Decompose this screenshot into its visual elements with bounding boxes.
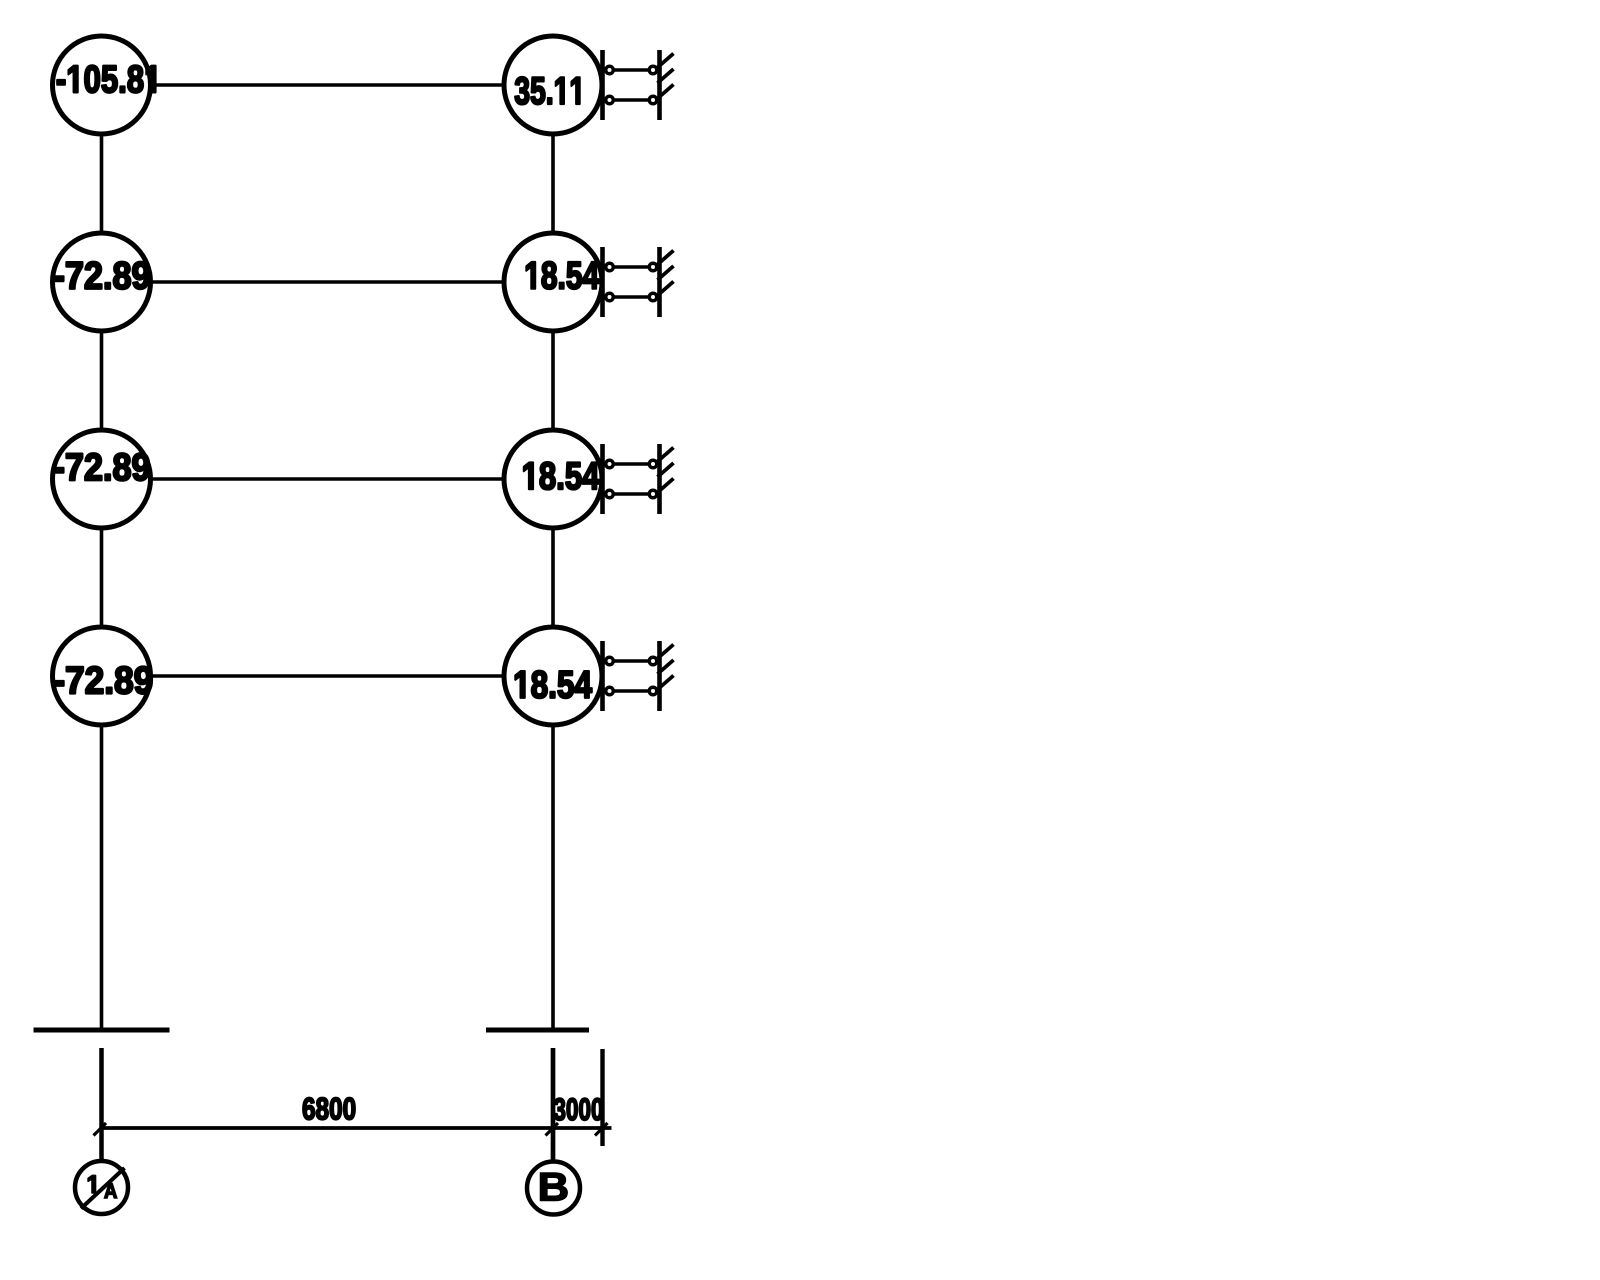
support row1 pin lower-left: [606, 96, 614, 104]
node circle row4 right: [504, 627, 602, 725]
beam row3: [149, 477, 505, 481]
support row3 pin upper-right: [649, 460, 657, 468]
node value -72.89 row3 left: [55, 453, 149, 480]
support row4 upper link bar: [604, 659, 658, 662]
support row1 lower link bar: [604, 98, 658, 101]
node value -72.89 row2 left: [55, 262, 149, 289]
dimension extension line: [600, 1049, 604, 1146]
support row4 (horizontal link support): [603, 641, 674, 711]
support row2 (horizontal link support): [603, 247, 674, 317]
grid label 1: [88, 1176, 95, 1193]
support row3 wall hatch 1: [658, 448, 674, 462]
support row3 wall hatch 3: [658, 479, 674, 493]
right column segment 2: [551, 331, 555, 431]
svg-text:B: B: [538, 1164, 569, 1209]
support row4 lower link bar: [604, 689, 658, 692]
support row3 pin upper-left: [606, 460, 614, 468]
support row4 pin upper-right: [649, 657, 657, 665]
grid bubble right: [527, 1162, 580, 1215]
support row2 wall post: [657, 247, 662, 317]
support row1 inner post: [600, 50, 605, 120]
support row3 lower link bar: [604, 492, 658, 495]
beam row2: [149, 280, 505, 284]
grid bubble left: [75, 1161, 128, 1214]
right column segment 4: [551, 725, 555, 1030]
support row4 pin upper-left: [606, 657, 614, 665]
support row2 wall hatch 3: [658, 282, 674, 296]
support row2 pin upper-right: [649, 263, 657, 271]
support row4 wall hatch 2: [658, 660, 674, 674]
foundation tick right: [486, 1028, 589, 1033]
left column segment 4: [100, 725, 104, 1030]
foundation tick left: [34, 1028, 170, 1033]
support row2 pin upper-left: [606, 263, 614, 271]
support row3 pin lower-left: [606, 490, 614, 498]
dim tick left: [94, 1123, 107, 1136]
support row4 inner post: [600, 641, 605, 711]
support row1 wall hatch 2: [658, 69, 674, 83]
support row4 wall hatch 1: [658, 645, 674, 659]
left column segment 1: [100, 134, 104, 234]
beam row4: [149, 674, 505, 678]
node value 18.54 row4 right: [515, 671, 592, 698]
node circle row2 right: [504, 233, 602, 331]
left column segment 2: [100, 331, 104, 431]
support row2 wall hatch 2: [658, 266, 674, 280]
node circle row3 left: [53, 430, 151, 528]
node circle row3 right: [504, 430, 602, 528]
node value 18.54 row3 right: [524, 462, 600, 489]
right column segment 1: [551, 134, 555, 234]
support row4 pin lower-left: [606, 687, 614, 695]
support row1 upper link bar: [604, 68, 658, 71]
support row1 wall post: [657, 50, 662, 120]
node circle row1 right: [504, 36, 602, 134]
dim text 3000: [554, 1098, 603, 1120]
node value 35.11 row1 right: [515, 77, 580, 104]
support row3 pin lower-right: [649, 490, 657, 498]
support row3 inner post: [600, 444, 605, 514]
support row3 wall post: [657, 444, 662, 514]
dim tick middle: [546, 1123, 559, 1136]
support row2 pin lower-left: [606, 293, 614, 301]
grid line left lower: [99, 1048, 104, 1160]
node value -105.81 row1 left: [57, 65, 156, 92]
support row2 wall hatch 1: [658, 251, 674, 265]
beam row1: [149, 83, 505, 87]
support row1 wall hatch 1: [658, 54, 674, 68]
support row2 pin lower-right: [649, 293, 657, 301]
node circle row4 left: [53, 627, 151, 725]
grid bubble left slash: [81, 1168, 125, 1209]
dim text 6800: [303, 1098, 355, 1120]
support row2 upper link bar: [604, 265, 658, 268]
support row1 pin upper-left: [606, 66, 614, 74]
dim tick right: [595, 1123, 608, 1136]
support row1 pin lower-right: [649, 96, 657, 104]
support row4 pin lower-right: [649, 687, 657, 695]
support row2 lower link bar: [604, 295, 658, 298]
support row3 upper link bar: [604, 462, 658, 465]
left column segment 3: [100, 528, 104, 628]
support row1 pin upper-right: [649, 66, 657, 74]
support row3 (horizontal link support): [603, 444, 674, 514]
svg-text:A: A: [104, 1180, 117, 1203]
dimension line: [101, 1126, 612, 1130]
support row4 wall post: [657, 641, 662, 711]
support row1 (horizontal link support): [603, 50, 674, 120]
node value -72.89 row4 left: [55, 667, 152, 694]
grid line right lower: [551, 1048, 556, 1160]
node circle row1 left: [53, 36, 151, 134]
node circle row2 left: [53, 233, 151, 331]
node value 18.54 row2 right: [526, 262, 599, 289]
support row1 wall hatch 3: [658, 85, 674, 99]
support row3 wall hatch 2: [658, 463, 674, 477]
support row4 wall hatch 3: [658, 676, 674, 690]
support row2 inner post: [600, 247, 605, 317]
right column segment 3: [551, 528, 555, 628]
